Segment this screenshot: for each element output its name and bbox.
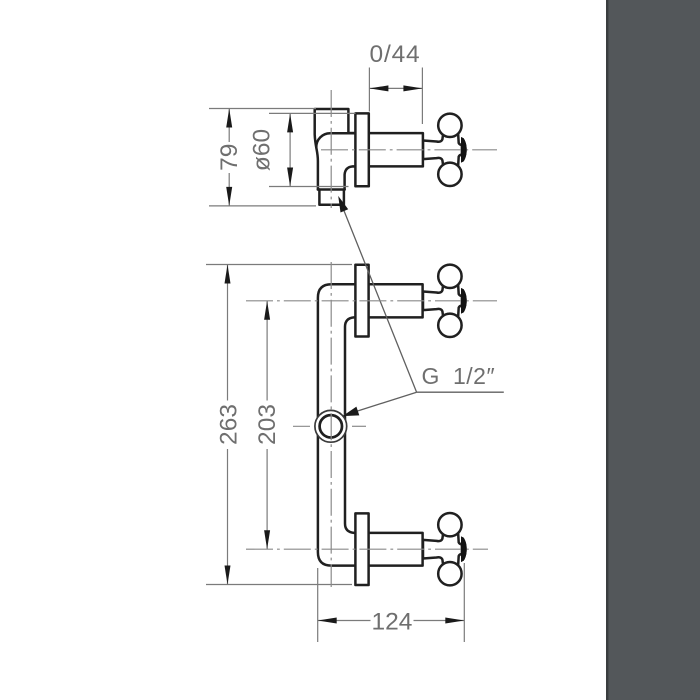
top valve handle upper ball [438,114,461,137]
dim 203 down arrow [264,530,270,549]
riser vertical centerline [330,262,332,587]
dim ø60 up arrow [287,113,293,132]
connection circle right centerline tick [352,425,366,427]
dim 0/44 right arrow [403,85,422,91]
middle valve horizontal centerline [246,300,497,302]
dim ø60 down arrow [287,168,293,187]
bottom valve handle lower ball [438,562,461,585]
dim 263 dimension line lower segment [227,449,229,585]
middle valve + riser pipe + bottom elbow outline [318,284,357,565]
leader lines G 1/2 [340,200,504,416]
dim ø60 dimension line [289,113,291,186]
dim 124 dimension line right segment [414,620,465,622]
dim 79 bottom extension line [209,205,316,207]
dim ø60 bottom extension line [269,186,349,188]
dim 203 dimension line lower segment [266,449,268,549]
bottom valve: handle [423,513,467,585]
dim 0/44 left arrow [369,85,388,91]
top valve horizontal centerline [321,149,497,151]
G 1/2 connection outer ring on riser [315,410,347,442]
dim 79 dimension line upper segment [228,109,230,143]
dim 124 left arrow [318,618,337,624]
bottom valve: pipe [356,533,423,566]
top valve: handle silhouette [423,114,467,186]
top valve handle end cap (over centerline) [461,137,467,163]
top valve handle lower ball [438,163,461,186]
connection circle left centerline tick [293,425,310,427]
middle valve handle upper ball [438,265,461,288]
top valve handle neck/hub [423,133,462,167]
top valve: pipe [348,133,423,166]
top assembly vertical centerline [330,90,332,208]
dim 124 dimension line left segment [318,620,371,622]
dim 263 bottom extension line [206,584,352,586]
svg-text:1/2″: 1/2″ [453,363,495,389]
svg-text:124: 124 [372,608,413,635]
dim 124 left extension line [317,568,319,642]
bottom valve handle neck/hub [423,532,462,566]
middle valve: wall flange [355,265,368,337]
dim 79 up arrow [226,109,232,128]
svg-text:263: 263 [216,404,243,445]
middle valve handle end cap (over centerline) [461,288,467,314]
dim 79 dimension line lower segment [228,173,230,206]
dim 203 dimension line upper segment [266,301,268,401]
leader arrow to spout [338,196,348,213]
leader arrow to circle [343,407,360,417]
dim 0/44 left extension line [368,68,370,112]
dim ø60 top extension line [269,112,356,114]
dim 79 down arrow [226,187,232,206]
spout shoulder line [318,188,345,191]
dim 0/44 dimension line [369,87,422,89]
middle valve handle lower ball [438,314,461,337]
inner elbow curve (top valve) [316,133,354,147]
handle end cap crescent [461,288,467,314]
bottom valve: wall flange [355,513,368,585]
svg-text:ø60: ø60 [249,129,276,171]
leader underline of G 1/2 label [417,391,504,393]
dim 263 top extension line [206,264,352,266]
leader line from G 1/2 label to riser connection circle [344,392,417,415]
svg-text:G: G [422,363,440,389]
bottom valve horizontal centerline [246,548,488,550]
svg-text:79: 79 [216,144,243,171]
dim 263 dimension line upper segment [227,265,229,401]
middle valve: handle [423,265,467,337]
G 1/2 connection inner ring on riser [320,415,342,437]
middle valve: pipe [356,284,423,317]
handle end cap crescent [461,536,467,562]
middle valve handle neck/hub [423,284,462,318]
right gray band dark edge [606,0,608,700]
dim 79 top extension line [209,108,316,110]
svg-text:203: 203 [254,404,281,445]
top valve: wall flange [355,113,368,186]
dim 263 down arrow [225,566,231,585]
svg-text:0/44: 0/44 [370,41,421,68]
dim 124 right arrow [445,618,464,624]
dim 263 up arrow [225,265,231,284]
leader line from spout outlet to G 1/2 label [340,200,417,393]
top valve: elbow body with spout [315,109,357,205]
bottom valve handle end cap (over centerline) [461,536,467,562]
right gray band [607,0,700,700]
bottom valve handle upper ball [438,513,461,536]
centerlines [246,90,497,587]
handle end cap crescent [461,137,467,163]
dim 0/44 right extension line [421,68,423,125]
dim 124 right extension line [463,563,465,642]
dim 203 up arrow [264,301,270,320]
